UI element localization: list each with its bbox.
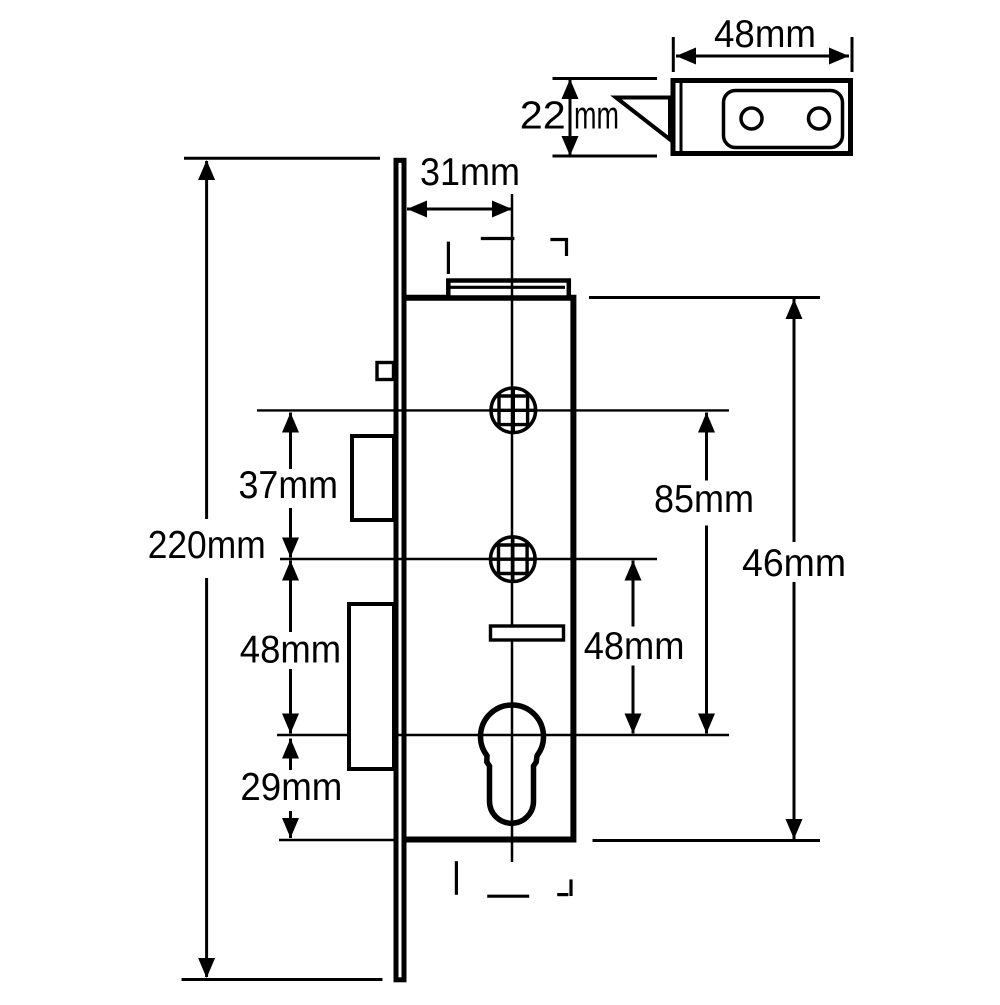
dimension 48mm keep: left extension line bbox=[672, 37, 675, 72]
svg-text:37mm: 37mm bbox=[239, 464, 339, 507]
rear box upper bbox=[352, 436, 394, 520]
phantom mark top horizontal dash bbox=[481, 237, 515, 240]
svg-text:31mm: 31mm bbox=[420, 151, 520, 194]
svg-text:220mm: 220mm bbox=[148, 524, 266, 567]
dimension 85mm: label bbox=[650, 478, 762, 526]
phantom mark top-right corner bbox=[550, 238, 568, 256]
dimension 37mm: label bbox=[234, 464, 344, 508]
phantom mark bottom vertical dash bbox=[455, 861, 458, 895]
dimension 46mm: line with arrows bbox=[786, 299, 803, 839]
reference line through lower spindle hole bbox=[280, 558, 657, 560]
dimension 48mm keep: dimension line bbox=[676, 48, 849, 65]
dimension 48mm left: label bbox=[236, 628, 347, 671]
svg-text:48mm: 48mm bbox=[240, 628, 341, 671]
phantom mark bottom horizontal dash bbox=[487, 895, 529, 898]
extension line body top right bbox=[589, 296, 820, 299]
fixing notch on faceplate bbox=[377, 363, 394, 380]
dimension 220mm: dimension line with arrows bbox=[198, 160, 215, 978]
svg-text:22: 22 bbox=[520, 94, 566, 137]
dimension 48mm right: label bbox=[579, 625, 689, 668]
dimension 37mm: line with arrows bbox=[282, 413, 299, 558]
rear box lower bbox=[349, 604, 394, 769]
dimension 22mm: top extension line bbox=[553, 77, 658, 80]
lock body outline bbox=[404, 298, 573, 840]
reference line through upper spindle hole bbox=[257, 409, 729, 411]
faceplate bbox=[396, 160, 404, 980]
dimension 22mm: bottom extension line bbox=[553, 155, 658, 158]
keep screw hole right bbox=[809, 108, 830, 129]
svg-text:48mm: 48mm bbox=[714, 13, 816, 56]
svg-text:46mm: 46mm bbox=[742, 542, 846, 585]
phantom mark bottom-right corner bbox=[557, 879, 571, 896]
keep screw hole left bbox=[741, 108, 762, 129]
keep latch wedge bbox=[616, 98, 670, 140]
keep box outer bbox=[673, 81, 851, 154]
dimension 85mm: line with arrows bbox=[698, 413, 715, 734]
dimension 220mm: top extension line bbox=[184, 157, 380, 160]
dimension 22mm: dimension line with arrows bbox=[562, 79, 579, 156]
dimension 46mm: label bbox=[738, 542, 850, 585]
phantom mark top vertical dash bbox=[447, 242, 450, 274]
dimension 29mm: bottom reference line bbox=[279, 839, 397, 841]
svg-text:48mm: 48mm bbox=[584, 625, 685, 668]
reference line through cylinder centre bbox=[277, 734, 729, 736]
dimension 220mm: bottom extension line bbox=[182, 978, 383, 981]
top cap plate bbox=[448, 281, 569, 298]
keep inner rounded plate bbox=[724, 91, 843, 148]
dimension 22mm: label bbox=[520, 94, 619, 137]
dimension 29mm: label bbox=[237, 766, 347, 811]
dimension 48mm right: line with arrows bbox=[625, 561, 642, 734]
slot rectangle bbox=[491, 626, 564, 640]
dimension 48mm left: line with arrows bbox=[282, 561, 299, 734]
dimension 29mm: line with arrows bbox=[282, 739, 299, 839]
euro cylinder hole bbox=[481, 705, 544, 823]
spindle hole upper (cross-hatched) bbox=[488, 385, 539, 436]
svg-text:mm: mm bbox=[574, 94, 619, 137]
spindle hole lower (cross-hatched) bbox=[487, 534, 538, 585]
dimension 48mm keep: right extension line bbox=[851, 37, 854, 72]
centre line vertical bbox=[511, 194, 514, 862]
svg-text:85mm: 85mm bbox=[654, 478, 754, 521]
dimension 31mm: dimension line with arrows bbox=[407, 201, 512, 218]
svg-text:29mm: 29mm bbox=[240, 766, 342, 809]
extension line body bottom right bbox=[593, 839, 821, 842]
keep lip line bbox=[680, 81, 683, 153]
dimension 220mm: label bbox=[144, 519, 270, 578]
